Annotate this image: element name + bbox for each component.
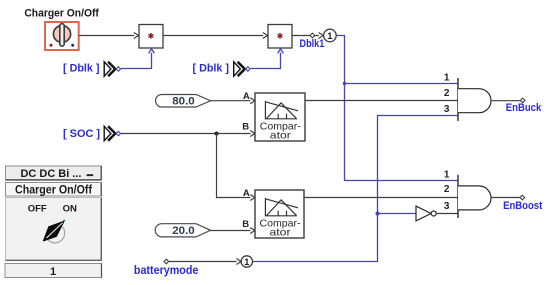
svg-text:[ Dblk ]: [ Dblk ]: [63, 63, 100, 75]
wire: NOT gate to EnBoost input 3: [436, 213, 458, 215]
constant 20.0: [155, 224, 210, 238]
From tag icon (right): [234, 62, 250, 76]
AND gate EnBoost: [458, 175, 491, 218]
svg-text:1: 1: [444, 169, 450, 180]
AND gate EnBuck: [458, 78, 491, 121]
product block P2: [268, 25, 292, 49]
comparator 1 block: [255, 93, 305, 142]
wire: SOC to comparator1 B: [121, 131, 255, 137]
svg-text:EnBuck: EnBuck: [506, 102, 542, 114]
panel: title bar DC DC Bi ...: [6, 166, 102, 181]
svg-text:ator: ator: [270, 227, 292, 239]
svg-text:Dblk1: Dblk1: [300, 38, 325, 50]
constant 80.0: [156, 95, 211, 108]
svg-text:1: 1: [50, 266, 56, 278]
diamond: batterymode line start: [164, 259, 169, 264]
wire: comparator1 out to EnBuck AND input 2: [305, 100, 458, 102]
outport 1 (Dblk1): [324, 29, 337, 42]
svg-text:3: 3: [444, 104, 450, 115]
svg-text:Charger On/Off: Charger On/Off: [15, 185, 92, 197]
svg-text:[ SOC ]: [ SOC ]: [63, 128, 100, 140]
svg-text:2: 2: [444, 88, 450, 99]
wire: EnBoost gate output: [491, 197, 520, 199]
wire: comparator2 out to EnBoost AND input 2: [304, 197, 458, 199]
wire: batterymode feedback (blue) up to EnBuck input 3: [252, 116, 457, 262]
svg-text:80.0: 80.0: [172, 96, 195, 108]
wire: product1 to product2: [163, 33, 268, 39]
svg-text:ator: ator: [270, 130, 292, 142]
junction on Dblk1 line: [343, 82, 346, 85]
product block P1: [139, 25, 163, 49]
svg-text:ON: ON: [63, 203, 77, 214]
panel: footer 1: [5, 264, 102, 278]
svg-text:A: A: [243, 91, 250, 102]
svg-text:1: 1: [244, 257, 250, 268]
wire: EnBuck gate output: [491, 100, 520, 102]
svg-text:B: B: [242, 219, 249, 230]
From tag icon (left): [104, 62, 120, 76]
svg-text:A: A: [243, 188, 250, 199]
From tag icon (SOC): [104, 126, 120, 140]
wire: Dblk right to product2 bottom: [251, 49, 284, 69]
svg-text:DC DC Bi ...: DC DC Bi ...: [21, 168, 82, 180]
svg-text:B: B: [242, 122, 249, 133]
wire: Dblk1 feedback down to gates (blue): [336, 36, 458, 181]
svg-text:EnBoost: EnBoost: [503, 200, 542, 212]
svg-text:OFF: OFF: [28, 203, 47, 214]
svg-text:3: 3: [444, 201, 450, 212]
rotary switch block (Charger On/Off): [45, 22, 79, 50]
junction dot on SOC wire: [215, 132, 219, 136]
signal anchor diamond on Dblk1 wire: [310, 33, 315, 38]
wire: 20.0 to comparator2 B: [211, 228, 255, 234]
comparator 2 block: [255, 190, 304, 239]
wire: SOC branch down to comparator2 A: [217, 134, 255, 201]
wire: branch to NOT gate (blue): [378, 213, 416, 215]
panel: body: [6, 198, 102, 261]
wire: switch to product1: [79, 33, 139, 39]
panel: switch lever icon: [44, 220, 66, 243]
wire: Dblk left to product1 bottom: [121, 49, 154, 69]
svg-text:1: 1: [327, 31, 333, 42]
svg-text:20.0: 20.0: [172, 225, 195, 237]
panel: header Charger On/Off: [6, 183, 102, 197]
inport circle 1 (batterymode): [241, 256, 252, 268]
svg-text:Charger On/Off: Charger On/Off: [24, 7, 99, 19]
svg-text:1: 1: [444, 72, 450, 83]
wire: product2 to outport Dblk1: [292, 33, 323, 39]
junction dot batterymode line: [376, 212, 380, 216]
diamond: EnBoost output end: [520, 195, 525, 200]
svg-text:[ Dblk ]: [ Dblk ]: [193, 63, 230, 75]
wire: batterymode to inport circle: [169, 259, 241, 265]
svg-text:2: 2: [444, 184, 450, 195]
wire: 80.0 to comparator1 A: [211, 98, 255, 104]
NOT gate: [416, 206, 436, 221]
svg-text:batterymode: batterymode: [134, 265, 199, 277]
diamond: EnBuck output end: [520, 98, 525, 103]
